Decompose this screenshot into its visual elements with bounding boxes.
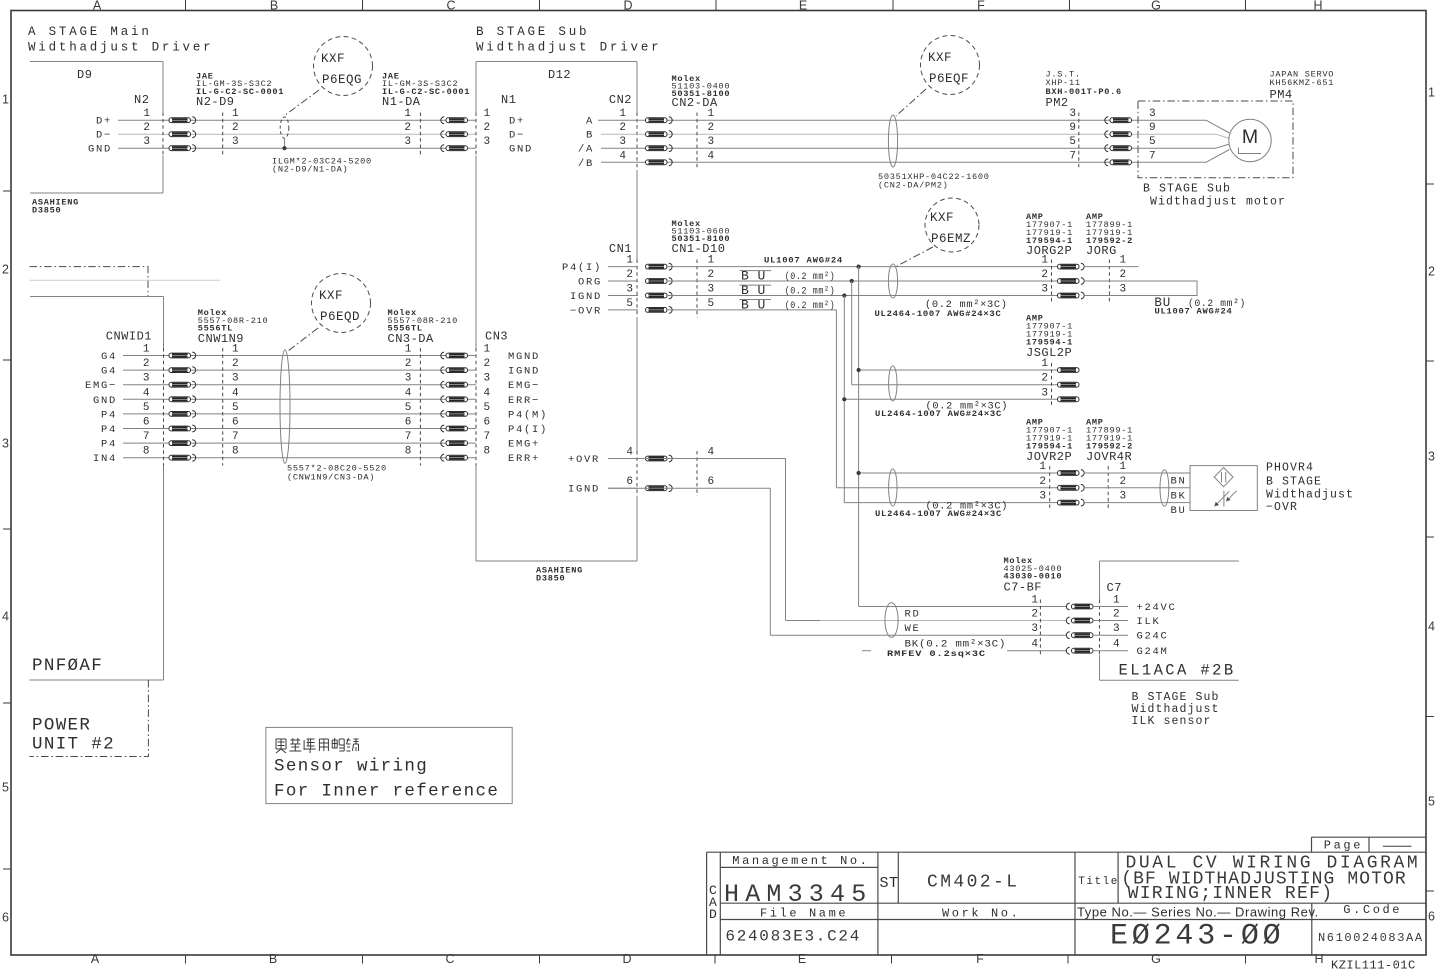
- svg-text:ST: ST: [880, 875, 899, 892]
- svg-text:3: 3: [1149, 108, 1156, 120]
- svg-text:5: 5: [1428, 795, 1435, 809]
- svg-text:D: D: [623, 0, 632, 13]
- svg-text:P4(M): P4(M): [508, 409, 548, 421]
- svg-text:1: 1: [708, 255, 715, 267]
- svg-text:POWER: POWER: [32, 716, 91, 736]
- svg-text:2: 2: [1041, 269, 1048, 281]
- svg-text:C7: C7: [1107, 581, 1122, 595]
- contacts JOVR2P: [1058, 471, 1080, 476]
- svg-text:N610024083AA: N610024083AA: [1318, 931, 1424, 945]
- power unit dash-dot boundary top: [30, 267, 149, 297]
- contacts CN1-D10: [646, 264, 668, 269]
- svg-text:B: B: [270, 0, 278, 13]
- sensor cable ellipse PHOVR: [1160, 470, 1169, 507]
- zone row ticks left: [3, 190, 11, 192]
- svg-text:CM402-L: CM402-L: [927, 873, 1019, 893]
- svg-text:3: 3: [1041, 387, 1048, 399]
- svg-text:IGND: IGND: [570, 291, 602, 303]
- wires CNWID1 to CN3: [123, 355, 476, 357]
- svg-text:6: 6: [405, 417, 412, 429]
- svg-text:G: G: [1151, 0, 1161, 13]
- svg-text:1: 1: [1113, 595, 1120, 607]
- cable ellipse CNW1N9/CN3-DA: [280, 350, 290, 464]
- cable ellipse N2-D9/N1-DA: [280, 117, 289, 138]
- svg-text:2: 2: [1039, 476, 1046, 488]
- svg-text:UL1007 AWG#24: UL1007 AWG#24: [764, 256, 843, 266]
- svg-text:2: 2: [405, 358, 412, 370]
- power unit dash-dot boundary bottom: [30, 680, 149, 757]
- svg-text:2: 2: [626, 269, 633, 281]
- svg-text:2: 2: [708, 269, 715, 281]
- svg-text:P4: P4: [101, 409, 117, 421]
- svg-text:5: 5: [143, 402, 150, 414]
- svg-text:EL1ACA #2B: EL1ACA #2B: [1119, 662, 1236, 680]
- cable ellipse CN1/JORG: [888, 264, 897, 298]
- svg-text:4: 4: [405, 387, 412, 399]
- svg-text:BK: BK: [1171, 490, 1187, 502]
- zone column ticks bottom: [185, 955, 187, 964]
- svg-text:KXF: KXF: [928, 51, 952, 65]
- svg-text:7: 7: [1149, 150, 1156, 162]
- EL1ACA box: [1100, 560, 1239, 562]
- svg-text:1: 1: [484, 108, 491, 120]
- svg-text:3: 3: [1031, 623, 1038, 635]
- junction dot JOVR pin1: [857, 471, 861, 475]
- svg-text:4: 4: [1428, 620, 1435, 634]
- svg-text:5: 5: [405, 402, 412, 414]
- svg-text:3: 3: [484, 373, 491, 385]
- svg-text:2: 2: [1113, 609, 1120, 621]
- svg-text:2: 2: [619, 122, 626, 134]
- svg-text:1: 1: [1120, 255, 1127, 267]
- motor M circle: [1229, 119, 1271, 161]
- svg-text:ILK sensor: ILK sensor: [1132, 715, 1212, 728]
- svg-text:7: 7: [1069, 150, 1076, 162]
- svg-text:3: 3: [1041, 284, 1048, 296]
- svg-text:HAM3345: HAM3345: [724, 880, 872, 909]
- contacts CN2-DA: [646, 118, 668, 123]
- svg-text:Widthadjust Driver: Widthadjust Driver: [28, 41, 213, 55]
- svg-text:B STAGE Sub: B STAGE Sub: [1143, 183, 1231, 196]
- svg-text:5: 5: [2, 781, 9, 795]
- svg-text:8: 8: [232, 446, 239, 458]
- connector face dashes at D9 exit: [162, 113, 164, 156]
- svg-text:Work No.: Work No.: [942, 907, 1020, 921]
- svg-text:Page: Page: [1324, 839, 1363, 853]
- svg-text:1: 1: [2, 93, 9, 107]
- svg-text:1: 1: [143, 344, 150, 356]
- svg-text:N2-D9: N2-D9: [196, 95, 235, 109]
- svg-text:PM4: PM4: [1270, 88, 1293, 102]
- dashed line and pin numbers N2-D9 side: [222, 113, 224, 156]
- svg-text:D9: D9: [77, 68, 92, 82]
- svg-text:+24VC: +24VC: [1137, 602, 1177, 614]
- svg-text:5: 5: [708, 298, 715, 310]
- wire CN1 pin1 run to JORG2P: [668, 266, 1058, 268]
- cable ellipse JOVR: [889, 469, 897, 506]
- svg-text:UL2464-1007 AWG#24×3C: UL2464-1007 AWG#24×3C: [875, 309, 1002, 319]
- svg-text:2: 2: [143, 358, 150, 370]
- svg-text:1: 1: [143, 108, 150, 120]
- svg-text:8: 8: [405, 446, 412, 458]
- svg-text:CN2: CN2: [609, 93, 632, 107]
- svg-text:1: 1: [1041, 255, 1048, 267]
- svg-text:5: 5: [626, 298, 633, 310]
- cable ellipse CN2-DA/PM2: [888, 115, 897, 167]
- svg-text:6: 6: [1428, 910, 1435, 924]
- driver box CNWID1: [30, 296, 164, 298]
- svg-text:+OVR: +OVR: [568, 454, 600, 466]
- svg-text:1: 1: [405, 344, 412, 356]
- svg-text:G4: G4: [101, 351, 117, 363]
- svg-text:2: 2: [484, 358, 491, 370]
- svg-text:3: 3: [619, 136, 626, 148]
- dashed line JORG side: [1108, 260, 1110, 303]
- svg-text:(0.2 mm²): (0.2 mm²): [785, 286, 836, 298]
- dashed lines CN1-D10 side: [696, 260, 698, 318]
- svg-text:1: 1: [1031, 595, 1038, 607]
- svg-text:B: B: [586, 130, 594, 142]
- svg-text:Management No.: Management No.: [732, 854, 869, 868]
- svg-text:Widthadjust: Widthadjust: [1266, 489, 1354, 502]
- svg-text:BN: BN: [1171, 476, 1187, 488]
- svg-text:3: 3: [626, 284, 633, 296]
- motor tach symbol: [1239, 148, 1262, 154]
- svg-text:ERR−: ERR−: [508, 395, 540, 407]
- title block outline: [707, 851, 1426, 853]
- feeder vertical pin3: [843, 296, 845, 503]
- svg-text:4: 4: [619, 150, 626, 162]
- svg-text:1: 1: [1039, 461, 1046, 473]
- svg-text:WIRING;INNER REF): WIRING;INNER REF): [1128, 884, 1334, 904]
- svg-text:F: F: [977, 0, 985, 13]
- svg-text:File Name: File Name: [760, 907, 848, 921]
- svg-text:1: 1: [708, 108, 715, 120]
- svg-text:6: 6: [708, 476, 715, 488]
- wire stubs inside CN1: [608, 266, 638, 268]
- connector face dash PM2: [1078, 113, 1080, 171]
- wire to C7 pin1: [859, 606, 1066, 608]
- svg-text:2: 2: [708, 122, 715, 134]
- svg-text:B: B: [269, 952, 277, 966]
- svg-text:3: 3: [143, 136, 150, 148]
- svg-text:C: C: [446, 0, 455, 13]
- svg-text:(CN2-DA/PM2): (CN2-DA/PM2): [878, 181, 949, 191]
- JORG pins 2-3 jumper loop: [1084, 281, 1197, 296]
- svg-text:−OVR: −OVR: [570, 305, 602, 317]
- svg-text:C7-BF: C7-BF: [1004, 581, 1043, 595]
- svg-text:CN3: CN3: [485, 330, 508, 344]
- svg-text:N1: N1: [501, 93, 516, 107]
- svg-text:G24C: G24C: [1137, 631, 1169, 643]
- svg-text:E: E: [798, 952, 806, 966]
- svg-text:1: 1: [1428, 86, 1435, 100]
- svg-text:3: 3: [708, 284, 715, 296]
- shield stem to GND: [284, 138, 286, 148]
- svg-text:PM2: PM2: [1046, 96, 1069, 110]
- svg-text:CN1-D10: CN1-D10: [672, 242, 726, 256]
- svg-text:9: 9: [1149, 122, 1156, 134]
- svg-text:GND: GND: [88, 144, 112, 156]
- svg-text:3: 3: [1113, 623, 1120, 635]
- svg-text:2: 2: [232, 358, 239, 370]
- svg-text:UL1007 AWG#24: UL1007 AWG#24: [1155, 307, 1233, 317]
- contacts PM2: [1105, 117, 1108, 124]
- svg-text:D12: D12: [548, 68, 571, 82]
- connector face dash CNWID1 exit: [163, 348, 165, 466]
- motor enclosure dash-dot box: [1138, 101, 1293, 178]
- svg-text:D: D: [622, 952, 631, 966]
- svg-text:CN2-DA: CN2-DA: [672, 96, 719, 110]
- contacts N1-DA: [441, 117, 444, 124]
- svg-text:UL2464-1007 AWG#24×3C: UL2464-1007 AWG#24×3C: [875, 409, 1002, 419]
- dashed line JOVR4R side: [1107, 466, 1109, 510]
- balloon KXF P6EQD: [312, 274, 371, 333]
- svg-text:Type No.— Series No.— Drawing: Type No.— Series No.— Drawing Rev.: [1077, 905, 1319, 920]
- dashed line and numbers CN2-DA side: [696, 113, 698, 171]
- svg-text:4: 4: [232, 387, 239, 399]
- faint artifact line: [30, 279, 221, 281]
- svg-text:4: 4: [484, 387, 491, 399]
- svg-text:A: A: [91, 952, 100, 966]
- svg-text:(0.2 mm²): (0.2 mm²): [785, 271, 836, 283]
- dashed line C7-BF: [1039, 600, 1041, 656]
- svg-text:1: 1: [484, 344, 491, 356]
- svg-text:UNIT #2: UNIT #2: [32, 735, 115, 755]
- contacts C7-BF: [1066, 603, 1069, 610]
- feeder vertical pin1: [858, 267, 860, 607]
- junction dot on GND wire at cable: [282, 146, 286, 150]
- svg-text:624083E3.C24: 624083E3.C24: [725, 928, 861, 946]
- svg-text:F: F: [976, 952, 984, 966]
- wire stubs inside EL1ACA: [1093, 606, 1128, 608]
- feeder vertical pin2: [851, 281, 853, 385]
- svg-text:Widthadjust Driver: Widthadjust Driver: [476, 41, 661, 55]
- svg-text:2: 2: [2, 263, 9, 277]
- svg-text:6: 6: [232, 417, 239, 429]
- svg-text:A: A: [93, 0, 102, 13]
- svg-text:EMG−: EMG−: [85, 380, 117, 392]
- balloon KXF P6EMZ: [925, 198, 979, 252]
- svg-text:GND: GND: [93, 395, 117, 407]
- wire CN1 pin5 run to corner: [668, 309, 836, 311]
- svg-text:/A: /A: [578, 144, 594, 156]
- svg-text:KXF: KXF: [930, 211, 954, 225]
- wires to JSGL2P: [859, 369, 1058, 371]
- zone row ticks right: [1426, 183, 1434, 185]
- svg-text:D3850: D3850: [32, 206, 61, 216]
- wires D9 to N1: [118, 119, 476, 121]
- svg-text:(CNW1N9/CN3-DA): (CNW1N9/CN3-DA): [287, 473, 375, 483]
- photo interrupter diamond symbol: [1214, 468, 1233, 487]
- svg-text:3: 3: [232, 136, 239, 148]
- contacts JORG2P: [1058, 264, 1080, 269]
- svg-text:3: 3: [2, 437, 9, 451]
- svg-text:5: 5: [484, 402, 491, 414]
- svg-text:H: H: [1314, 952, 1323, 966]
- svg-text:P6EMZ: P6EMZ: [931, 232, 971, 246]
- svg-text:ERR+: ERR+: [508, 453, 540, 465]
- svg-text:Sensor wiring: Sensor wiring: [274, 757, 428, 777]
- svg-text:CNWID1: CNWID1: [106, 330, 152, 344]
- dashed line CNW1N9 side: [222, 348, 224, 466]
- svg-text:3: 3: [404, 136, 411, 148]
- svg-text:UL2464-1007 AWG#24×3C: UL2464-1007 AWG#24×3C: [875, 509, 1002, 519]
- svg-text:EMG−: EMG−: [508, 380, 540, 392]
- contacts JSGL2P: [1058, 368, 1080, 373]
- svg-text:Title: Title: [1078, 876, 1119, 888]
- svg-text:7: 7: [232, 431, 239, 443]
- connector face dashes on D12 left edge: [475, 113, 477, 156]
- svg-text:D+: D+: [96, 116, 112, 128]
- svg-text:IGND: IGND: [508, 366, 540, 378]
- svg-text:4: 4: [143, 387, 150, 399]
- svg-text:2: 2: [1031, 609, 1038, 621]
- svg-text:2: 2: [1428, 265, 1435, 279]
- svg-text:7: 7: [405, 431, 412, 443]
- svg-text:(0.2 mm²): (0.2 mm²): [785, 300, 836, 312]
- svg-text:RMFEV 0.2sq×3C: RMFEV 0.2sq×3C: [887, 649, 986, 659]
- wires to JOVR2P: [859, 472, 1058, 474]
- svg-text:BU: BU: [1171, 505, 1187, 517]
- junction dots JSGL2P feeders: [857, 368, 861, 372]
- wire to C7 pin2: [786, 620, 821, 622]
- svg-text:3: 3: [1069, 108, 1076, 120]
- feeder vertical pin5: [835, 310, 837, 488]
- wire CN1 pin3 run: [668, 295, 1058, 297]
- svg-text:3: 3: [484, 136, 491, 148]
- svg-text:D3850: D3850: [536, 574, 565, 584]
- svg-text:D: D: [709, 907, 717, 922]
- dashed line JSGL2P: [1051, 363, 1053, 407]
- svg-text:GND: GND: [509, 144, 533, 156]
- svg-text:MGND: MGND: [508, 351, 540, 363]
- page box: [1312, 836, 1427, 838]
- svg-text:EØ243-ØØ: EØ243-ØØ: [1110, 920, 1284, 954]
- svg-text:3: 3: [708, 136, 715, 148]
- page number dash: [1383, 845, 1412, 847]
- svg-text:PNFØAF: PNFØAF: [32, 656, 103, 676]
- driver box D9: [30, 61, 163, 63]
- note kanji line: [276, 738, 359, 753]
- wire CN1 pin2 run: [668, 280, 1058, 282]
- svg-text:4: 4: [1113, 639, 1120, 651]
- wires JOVR4R to sensor: [1084, 472, 1190, 474]
- svg-text:4: 4: [708, 447, 715, 459]
- svg-text:P4(I): P4(I): [508, 424, 548, 436]
- svg-text:G24M: G24M: [1137, 646, 1169, 658]
- svg-text:B STAGE: B STAGE: [1266, 476, 1322, 489]
- svg-text:G4: G4: [101, 366, 117, 378]
- svg-text:P4(I): P4(I): [562, 262, 602, 274]
- svg-text:4: 4: [708, 150, 715, 162]
- wire CN1 pin4 +OVR run: [608, 458, 786, 460]
- svg-text:2: 2: [1041, 373, 1048, 385]
- svg-text:P6EQG: P6EQG: [322, 73, 362, 87]
- svg-text:−OVR: −OVR: [1266, 501, 1298, 514]
- svg-text:2: 2: [1120, 269, 1127, 281]
- svg-text:For Inner reference: For Inner reference: [274, 781, 499, 801]
- svg-text:1: 1: [1041, 358, 1048, 370]
- wires CN2-DA cable run: [638, 119, 1138, 121]
- svg-text:D−: D−: [509, 130, 525, 142]
- svg-text:D−: D−: [96, 130, 112, 142]
- svg-text:JOVR2P: JOVR2P: [1026, 450, 1072, 464]
- svg-text:2: 2: [143, 122, 150, 134]
- svg-text:Widthadjust motor: Widthadjust motor: [1150, 196, 1286, 209]
- svg-text:N1-DA: N1-DA: [382, 95, 421, 109]
- wire CN1 pin6 IGND run: [608, 487, 770, 489]
- motor lead wires: [1206, 120, 1230, 133]
- contacts CN3-DA: [441, 352, 444, 359]
- svg-text:3: 3: [1428, 450, 1435, 464]
- svg-text:3: 3: [1120, 284, 1127, 296]
- svg-text:KH56KMZ-651: KH56KMZ-651: [1270, 78, 1335, 88]
- svg-text:M: M: [1242, 126, 1258, 148]
- svg-text:(N2-D9/N1-DA): (N2-D9/N1-DA): [272, 165, 348, 175]
- junction dots CN1 branches: [857, 265, 861, 269]
- svg-text:B STAGE Sub: B STAGE Sub: [476, 25, 589, 39]
- svg-text:2: 2: [1120, 476, 1127, 488]
- photo transistor symbol: [1223, 491, 1225, 507]
- svg-text:D+: D+: [509, 116, 525, 128]
- svg-text:KXF: KXF: [319, 289, 343, 303]
- svg-text:5: 5: [232, 402, 239, 414]
- svg-text:3: 3: [1120, 491, 1127, 503]
- svg-text:JORG2P: JORG2P: [1026, 244, 1072, 258]
- svg-text:ILK: ILK: [1137, 616, 1161, 628]
- svg-text:N2: N2: [134, 93, 149, 107]
- cable ellipse JSGL: [889, 366, 897, 401]
- svg-text:G: G: [1151, 952, 1161, 966]
- wires CN2 to PM2: [598, 119, 638, 121]
- svg-text:WE: WE: [905, 623, 921, 635]
- contacts N2-D9: [169, 118, 191, 123]
- driver box D12: [476, 61, 637, 63]
- svg-text:3: 3: [232, 373, 239, 385]
- svg-text:2: 2: [232, 122, 239, 134]
- dashed line CN3-DA: [419, 348, 421, 466]
- svg-text:7: 7: [143, 431, 150, 443]
- svg-text:EMG+: EMG+: [508, 439, 540, 451]
- cable ellipse C7: [885, 603, 898, 638]
- dashed line JOVR2P: [1049, 466, 1051, 510]
- svg-text:IN4: IN4: [93, 453, 117, 465]
- svg-text:4: 4: [626, 447, 633, 459]
- wire to C7 pin3: [770, 634, 1066, 636]
- svg-text:7: 7: [484, 431, 491, 443]
- svg-text:1: 1: [619, 108, 626, 120]
- svg-text:/B: /B: [578, 158, 594, 170]
- svg-text:JORG: JORG: [1086, 244, 1117, 258]
- svg-text:6: 6: [143, 417, 150, 429]
- svg-text:KZIL111-01C: KZIL111-01C: [1331, 959, 1416, 973]
- svg-text:1: 1: [626, 255, 633, 267]
- svg-text:1: 1: [404, 108, 411, 120]
- svg-text:A: A: [586, 116, 594, 128]
- balloon KXF P6EQF: [921, 36, 980, 95]
- svg-text:P4: P4: [101, 424, 117, 436]
- svg-text:4: 4: [2, 610, 9, 624]
- wire to C7 pin4: [862, 650, 871, 652]
- svg-text:8: 8: [143, 446, 150, 458]
- svg-text:6: 6: [484, 417, 491, 429]
- svg-text:5: 5: [1149, 136, 1156, 148]
- svg-text:G.Code: G.Code: [1343, 903, 1402, 917]
- svg-text:2: 2: [404, 122, 411, 134]
- svg-text:8: 8: [484, 446, 491, 458]
- svg-text:3: 3: [143, 373, 150, 385]
